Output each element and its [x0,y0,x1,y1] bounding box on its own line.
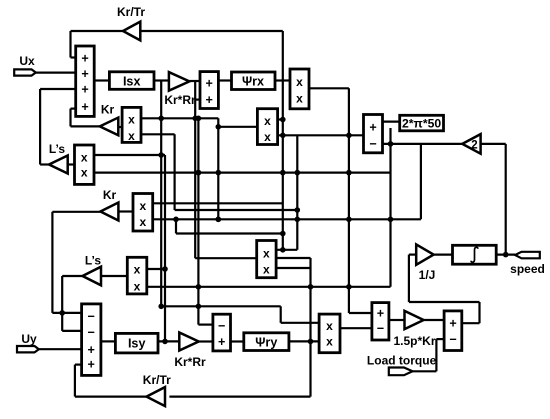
wire Psi-rx output to multiplier M1 [275,79,290,81]
svg-text:x: x [134,280,141,294]
wire product/flux distribution row (node B) [147,284,391,290]
wire 1/J output to integrator [434,254,453,256]
gain Kr*Rr (x-channel) [169,72,190,91]
svg-text:L’s: L’s [85,254,102,268]
svg-text:x: x [264,114,271,128]
svg-text:x: x [296,92,303,106]
svg-text:2: 2 [471,140,477,152]
svg-text:−: − [369,137,376,151]
block Isy [115,333,158,353]
multiplier M1 (x x, top right) [290,69,309,109]
wire M6 to L's gain row4 [102,275,127,277]
wire M2 to Kr gain row2 [118,126,122,128]
multiplier M6 (x x, row4) [127,257,147,294]
wire Kr row3 output to S4 input 1 [52,212,100,316]
wire integrator output to speed tag (node speed) [496,252,515,258]
svg-text:+: + [81,100,88,114]
block Isx [109,72,154,90]
block Psi-rx [232,72,276,90]
input tag Uy [17,346,39,352]
wire branch from Kr*Rr output down to M7 left input [192,81,256,258]
svg-text:−: − [88,326,95,340]
gain 1.5p*Kr [405,311,424,329]
gain L's (row2b) [49,156,68,174]
wire S6 output to 1.5p*Kr gain [389,319,405,321]
wire into M4 left input [218,126,257,128]
wire omega vertical drop 1 [388,128,394,287]
svg-text:+: + [377,307,384,321]
multiplier M5 (x x, row3) [133,194,153,232]
wire Kr/Tr bottom output to S4 input 4 [75,365,147,397]
svg-text:Isx: Isx [123,75,141,89]
svg-text:+: + [206,93,213,107]
wire S4 output to Isy [101,340,116,342]
wire vertical branch to S5 minus input [196,118,213,324]
wire M7 vertical down to Kr/Tr bottom feed [169,258,313,397]
wire M4 right-top stub to Psi-rx line [278,118,283,120]
svg-text:x: x [134,263,141,277]
svg-text:Load torque: Load torque [367,354,437,368]
summing block S4 (- - + +) [82,304,101,376]
wire M1 output down to S6 (node A) [309,88,372,313]
multiplier M2 (x x, row2) [122,107,141,143]
svg-text:x: x [139,215,146,229]
integrator block [453,245,497,264]
svg-text:Kr/Tr: Kr/Tr [117,5,145,19]
wire M3 input 2 long row [94,170,390,176]
block 2*pi*50 [400,115,444,131]
wire Psi-ry output to M8 input 2 (node Pry) [289,340,319,342]
svg-text:Ψrx: Ψrx [242,75,264,89]
svg-text:x: x [263,246,270,260]
wire M5 to Kr gain row3 [118,210,133,212]
wire S2 output to Psi-rx block [218,79,231,81]
wire Kr/Tr top output into S1 input 1 [71,31,124,58]
svg-text:+: + [81,52,88,66]
wire Isx output to Kr*Rr gain (node Isx) [154,79,169,81]
svg-text:Ψry: Ψry [255,336,277,350]
summing block S2 (+ +) [200,72,218,109]
svg-text:+: + [88,343,95,357]
wire M3 to L's gain row2b [68,163,75,165]
wire 1.5p*Kr output to S7 [424,319,445,321]
gain Kr (row2) [100,118,119,136]
svg-text:speed: speed [510,262,545,276]
wire omega branch down to Prx node crossing [176,219,283,233]
svg-text:Kr: Kr [101,103,115,117]
gain Kr/Tr (bottom feedback) [147,387,166,406]
svg-text:x: x [81,151,88,165]
wire vertical branch into M7 right input [276,135,297,250]
output tag speed [515,252,540,258]
wire vertical to Isy output node [162,155,168,341]
gain 1/J [416,244,433,264]
svg-text:+: + [369,120,376,134]
wire Kr*Rr y output to S5 [199,340,213,342]
multiplier M8 (x x, bottom) [319,314,340,353]
svg-text:−: − [449,333,456,347]
svg-text:Kr*Rr: Kr*Rr [174,355,206,369]
wire L's row2b output to S1 input 3 [40,89,76,165]
wire M2 input 2 row to omega node [142,134,301,213]
wire M3 input 1 row [94,154,165,156]
svg-text:x: x [264,130,271,144]
summing block S3 (+ -) [364,115,383,153]
svg-text:−: − [218,319,225,333]
gain Kr*Rr (y-channel) [179,333,198,351]
svg-text:+: + [218,335,225,349]
summing block S6 (+ -) [372,303,389,340]
block Psi-ry [244,333,289,351]
summing block S5 (- +) [213,314,231,351]
gain 2 [462,134,480,154]
wire M4 output to S3 input 1 [278,134,364,136]
svg-text:+: + [88,358,95,372]
svg-text:+: + [81,83,88,97]
gain Kr (row3) [100,203,118,221]
wire S3 output to 2*pi*50 block [383,120,400,122]
multiplier M7 (x x, center-bottom) [257,241,276,278]
wire speed feedback up to gain 2 [481,144,506,255]
wire Isx bus to multiplier M8 input 1 [158,304,319,323]
svg-text:1/J: 1/J [419,268,436,282]
svg-text:Kr: Kr [103,188,117,202]
svg-text:+: + [206,77,213,91]
summing block S7 (+ -) [444,311,462,351]
svg-text:1.5p*Kr: 1.5p*Kr [393,334,435,348]
wire vertical Isx distribution [158,81,164,307]
input tag Ux [14,69,36,75]
input tag Load torque [389,368,413,376]
wire M2 input 1 row [142,116,222,223]
wire Uy into S4 input 3 [39,348,82,350]
svg-text:2*π*50: 2*π*50 [402,116,441,130]
wire S7 output loop to 1/J gain [409,255,480,324]
wire S1 output to Isx [94,79,109,81]
svg-text:x: x [263,263,270,277]
wire Kr row2 output to S1 input 4 [71,109,100,127]
svg-text:Kr*Rr: Kr*Rr [164,93,196,107]
wire Kr*Rr output to S2 input 1 [189,80,200,82]
svg-text:x: x [81,166,88,180]
svg-text:L’s: L’s [49,142,66,156]
svg-text:+: + [449,317,456,331]
svg-text:x: x [326,319,333,333]
wire Psi-ry into M6 input 1 [147,268,165,270]
gain L's (row4) [83,267,102,286]
wire L's row4 output to S4 input 2 [62,276,82,331]
wire Kr/Tr top feedback from node Psi-rx [140,30,282,32]
wire vertical Psi-rx distribution (node Prx) [280,31,286,253]
svg-text:x: x [296,75,303,89]
wire omega feedback from gain 2 to S3 [383,143,463,145]
wire Isy output to Kr*Rr y-gain (node Isy) [158,339,179,345]
svg-text:−: − [88,309,95,323]
svg-text:−: − [377,322,384,336]
wire Ux into S1 input 2 [36,71,76,73]
wire Load torque into S7 minus input [413,339,445,371]
svg-text:x: x [128,129,135,143]
wire omega vertical drop 2 and distribution row [153,144,421,222]
wire S5 output to Psi-ry [231,340,244,342]
gain Kr/Tr (top feedback) [123,22,140,41]
svg-text:Uy: Uy [21,332,37,346]
multiplier M3 (x x, row2b) [75,145,95,184]
wire Psi-rx into M5 input 1 [153,202,283,204]
multiplier M4 (x x, center) [257,109,277,145]
summing block S1 (+ + + +) [76,46,95,116]
svg-text:+: + [81,67,88,81]
svg-text:x: x [326,335,333,349]
wire M7 output stubs to vertical [275,258,310,268]
svg-text:Isy: Isy [128,337,146,351]
svg-text:Kr/Tr: Kr/Tr [143,373,171,387]
svg-text:Ux: Ux [19,54,35,68]
wire M8 output to S6 minus input [340,327,372,329]
svg-text:x: x [139,199,146,213]
svg-text:x: x [128,113,135,127]
